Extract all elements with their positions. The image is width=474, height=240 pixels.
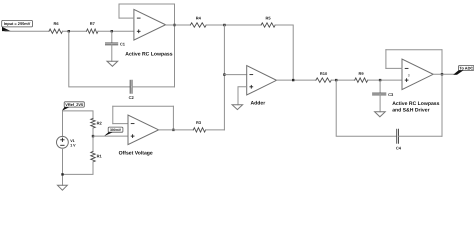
capacitor C2 xyxy=(129,80,135,100)
wire adder output to R10 xyxy=(277,79,316,81)
flag To ADC xyxy=(453,65,474,74)
wire offset top feedback xyxy=(113,105,174,107)
wire V1 to ground xyxy=(62,148,64,185)
wire op-amp3 minus input xyxy=(386,67,402,69)
wire to adder minus input xyxy=(224,74,246,76)
ground under C1 xyxy=(107,61,118,66)
wire R7 to op-amp plus input xyxy=(98,30,134,32)
wire C1 to ground xyxy=(111,45,113,61)
capacitor C3 xyxy=(373,92,394,97)
resistor R6 xyxy=(49,21,63,33)
svg-text:C1: C1 xyxy=(120,42,126,47)
op-amp U2 adder xyxy=(247,66,277,95)
resistor R2 xyxy=(91,119,103,129)
op-amp U4 offset xyxy=(128,115,159,145)
svg-text:C3: C3 xyxy=(388,92,394,97)
wire R6 to R7 xyxy=(63,30,87,32)
wire offset feedback vertical xyxy=(172,106,174,130)
svg-text:VRef_2V5: VRef_2V5 xyxy=(65,102,84,107)
junction at op-amp1 output xyxy=(173,24,175,26)
svg-text:V1: V1 xyxy=(70,139,74,143)
ground under V1 xyxy=(58,185,68,190)
junction ground rail xyxy=(61,173,63,175)
svg-text:Active RC Lowpass: Active RC Lowpass xyxy=(392,101,439,107)
svg-text:Offset Voltage: Offset Voltage xyxy=(119,150,153,156)
wire summing node vertical xyxy=(223,25,225,130)
voltage source V1 xyxy=(57,136,77,148)
wire R9 to op-amp3 plus xyxy=(368,79,402,81)
svg-text:R2: R2 xyxy=(97,120,103,125)
svg-text:Active RC Lowpass: Active RC Lowpass xyxy=(125,51,172,57)
svg-text:C4: C4 xyxy=(396,145,402,150)
svg-text:3: 3 xyxy=(408,74,410,78)
wire op-amp1 output to R4 xyxy=(166,24,191,26)
wire offset minus input xyxy=(113,123,128,125)
svg-text:R9: R9 xyxy=(358,71,364,76)
junction R2-R1 node xyxy=(92,135,94,137)
junction at adder minus xyxy=(223,73,225,75)
resistor R3 xyxy=(193,120,205,132)
wire R5 to adder output corner xyxy=(275,25,293,80)
wire R4 to R5 through summing node xyxy=(206,24,261,26)
svg-text:R5: R5 xyxy=(265,15,271,20)
resistor R1 xyxy=(91,152,103,162)
junction adder output xyxy=(292,79,294,81)
flag VRef_2V5 xyxy=(62,102,84,111)
wire VRef node to V1 xyxy=(62,111,64,136)
wire feedback vertical stage1 xyxy=(174,4,176,87)
junction op-amp3 output xyxy=(441,73,443,75)
svg-text:1 V: 1 V xyxy=(70,144,76,148)
svg-text:Adder: Adder xyxy=(251,101,266,107)
ground under C3 xyxy=(375,112,386,117)
svg-text:To ADC: To ADC xyxy=(459,66,473,71)
op-amp U1 xyxy=(134,9,166,40)
op-amp U3 xyxy=(402,59,433,90)
wire op-amp3 minus vertical xyxy=(385,50,387,69)
resistor R5 xyxy=(261,15,275,27)
wire adder plus input xyxy=(238,87,247,105)
svg-text:R3: R3 xyxy=(196,120,202,125)
svg-text:R6: R6 xyxy=(53,21,59,26)
wire offset minus vertical xyxy=(112,106,114,123)
svg-text:and S&H Driver: and S&H Driver xyxy=(392,107,429,113)
wire node B down to C1 xyxy=(111,31,113,42)
junction node A2 xyxy=(335,79,337,81)
wire R10 to R9 xyxy=(331,79,354,81)
wire node A2 down to C4 loop xyxy=(336,80,397,136)
input flag Input = 200mV xyxy=(2,20,33,31)
svg-text:Input = 200mV: Input = 200mV xyxy=(4,21,31,26)
resistor R4 xyxy=(190,15,206,27)
node A junction xyxy=(68,30,70,32)
junction offset output xyxy=(172,129,174,131)
wire C4 to feedback vertical xyxy=(399,135,443,137)
wire offset output to R3 xyxy=(159,129,194,131)
wire offset plus input xyxy=(93,135,128,137)
svg-text:R1: R1 xyxy=(97,154,103,159)
svg-text:R10: R10 xyxy=(320,71,328,76)
wire input to R6 xyxy=(5,30,49,32)
wire R1 bottom to ground rail xyxy=(63,162,94,175)
resistor R9 xyxy=(355,71,368,83)
node B junction xyxy=(111,30,113,32)
wire op-amp3 output xyxy=(433,73,455,75)
wire VRef node right and down xyxy=(63,111,94,119)
svg-text:R7: R7 xyxy=(90,21,96,26)
resistor R7 xyxy=(87,21,99,33)
wire node A down to C2 loop xyxy=(69,31,130,87)
resistor R10 xyxy=(316,71,331,83)
ground at adder plus xyxy=(232,105,243,110)
wire top feedback stage1 xyxy=(119,3,175,5)
wire C3 to ground xyxy=(379,95,381,112)
flag 300mV xyxy=(104,127,123,136)
svg-text:R4: R4 xyxy=(196,15,202,20)
wire R2 to R1 xyxy=(92,128,94,152)
wire stage2 top feedback xyxy=(386,49,442,51)
wire R3 to summing vertical xyxy=(206,129,225,131)
capacitor C4 xyxy=(396,129,402,150)
junction node B2 xyxy=(379,79,381,81)
svg-text:300mV: 300mV xyxy=(110,128,122,132)
wire minus input xyxy=(119,17,134,19)
svg-text:C2: C2 xyxy=(129,95,135,100)
junction summing node top xyxy=(223,24,225,26)
wire stage2 feedback vertical xyxy=(441,50,443,137)
wire C2 to feedback vertical xyxy=(132,86,175,88)
wire minus vertical up xyxy=(118,4,120,18)
wire node B2 down to C3 xyxy=(379,80,381,93)
capacitor C1 xyxy=(106,42,126,47)
